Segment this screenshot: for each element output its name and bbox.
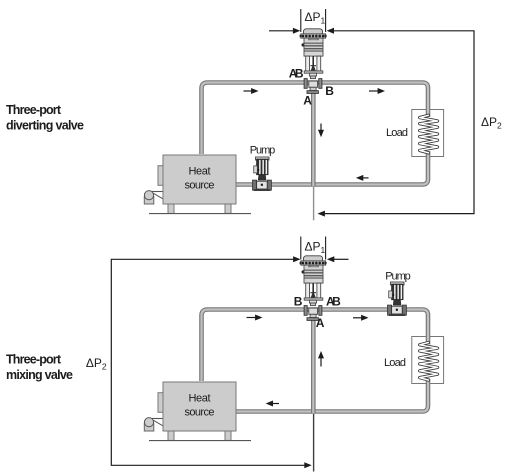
- svg-text:Pump: Pump: [385, 270, 411, 282]
- wire: thin pressure-tap extension below A pipe (bottom): [313, 414, 315, 472]
- load coil (top): [420, 115, 438, 153]
- dP1 left arrow (top): [269, 28, 300, 34]
- svg-text:B: B: [294, 295, 303, 309]
- dP2 measurement line with arrow into valve (top): [318, 28, 475, 217]
- dP2 measurement rectangle with arrows (bottom): [111, 256, 311, 468]
- dP1 tick right (bottom): [325, 237, 327, 260]
- flow arrow right on supply (top): [244, 88, 259, 94]
- svg-text:Pump: Pump: [250, 145, 275, 157]
- svg-text:Heat: Heat: [189, 393, 211, 405]
- svg-text:A: A: [303, 94, 312, 108]
- wire: valve port A vertical pipe (bottom): [311, 315, 316, 413]
- svg-text:AB: AB: [289, 67, 304, 81]
- wire: return pipe from load bottom left to heat source (bottom): [234, 379, 428, 412]
- svg-text:mixing valve: mixing valve: [6, 368, 73, 382]
- flow arrow down on A pipe (top): [318, 124, 324, 138]
- svg-text:source: source: [185, 180, 215, 192]
- svg-text:B: B: [325, 84, 334, 98]
- pump P1 (top): [253, 157, 272, 191]
- heat source (bottom): [144, 382, 251, 441]
- svg-text:source: source: [185, 407, 215, 419]
- load box (bottom): [412, 337, 444, 384]
- flow arrow up on A pipe (bottom): [318, 351, 324, 367]
- wire: return pipe from load bottom left to heat source (top): [234, 151, 428, 185]
- svg-text:Three-port: Three-port: [6, 353, 62, 367]
- wire: supply pipe from heat source up and right through valve and pump to load (bottom): [202, 310, 429, 382]
- pump P2 (bottom): [388, 282, 407, 316]
- flow arrow right after port AB (bottom): [353, 315, 369, 321]
- flow arrow left on return (bottom): [266, 401, 279, 407]
- wire: supply pipe from heat source up and right through valve to load (top): [202, 83, 429, 155]
- svg-text:Load: Load: [384, 357, 406, 369]
- load box (top): [412, 110, 444, 157]
- load coil (bottom): [420, 343, 438, 381]
- flow arrow left on return (top): [356, 175, 369, 181]
- svg-text:Heat: Heat: [189, 166, 211, 178]
- dP1 tick left (bottom): [300, 237, 302, 260]
- svg-text:diverting valve: diverting valve: [6, 119, 84, 133]
- svg-text:Load: Load: [386, 127, 408, 139]
- flow arrow right after port B (top): [369, 88, 385, 94]
- svg-text:A: A: [316, 316, 325, 330]
- svg-text:AB: AB: [326, 295, 341, 309]
- wire: thin pressure-tap extension below A pipe (top): [313, 187, 315, 220]
- dP1 tick right (top): [325, 9, 327, 32]
- wire: valve port A vertical pipe (top): [311, 88, 316, 186]
- flow arrow right on supply (bottom): [247, 315, 263, 321]
- dP1 tick left (top): [300, 9, 302, 32]
- svg-text:Three-port: Three-port: [6, 103, 62, 117]
- heat source (top): [144, 155, 251, 214]
- three-port valve V1 (top): [300, 29, 327, 94]
- dP1 right arrow (bottom): [327, 256, 349, 262]
- three-port valve V2 (bottom): [300, 256, 327, 321]
